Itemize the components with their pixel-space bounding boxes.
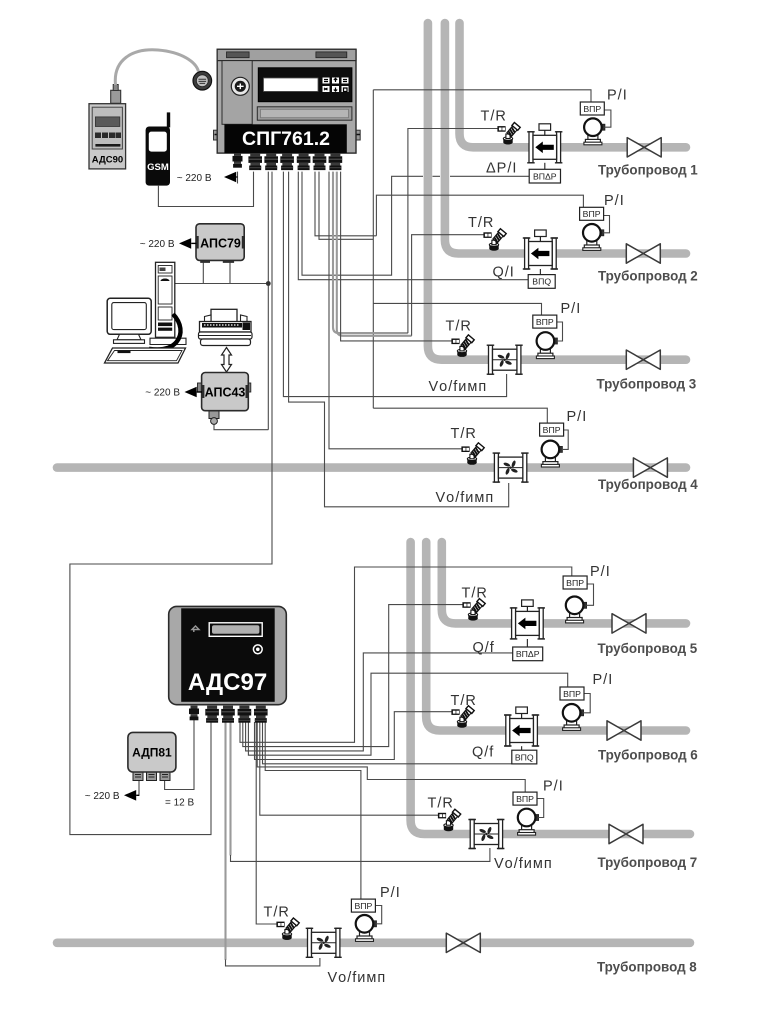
device АПС43 — [198, 373, 251, 425]
valve 2 — [626, 244, 660, 263]
pipe riser 2 (top-middle vertical) — [445, 23, 686, 254]
svg-text:~ 220 В: ~ 220 В — [140, 239, 175, 250]
svg-text:GSM: GSM — [147, 162, 169, 173]
ВПР box 6 — [560, 687, 584, 700]
wire T/R-1 — [333, 172, 408, 334]
mouse cable swoosh — [149, 314, 181, 349]
svg-text:T/R: T/R — [468, 215, 494, 231]
wire Q-5 — [246, 653, 513, 751]
computer tower — [150, 262, 186, 344]
ВПР-transmitter link 2 — [603, 216, 610, 233]
wire P/I-4 — [373, 408, 547, 423]
svg-text:T/R: T/R — [264, 905, 290, 921]
ВПР-transmitter link 5 — [586, 584, 593, 605]
transmitter 3 — [536, 332, 557, 358]
ВПQ box 2 — [528, 275, 555, 289]
device АПС79 — [196, 224, 244, 263]
svg-text:ΔP/I: ΔP/I — [486, 161, 517, 177]
svg-text:P/I: P/I — [590, 564, 611, 580]
svg-text:АПС79: АПС79 — [200, 237, 241, 251]
svg-text:Q/f: Q/f — [472, 745, 494, 761]
computer monitor — [107, 298, 151, 343]
svg-text:ВПQ: ВПQ — [532, 277, 551, 287]
turbine meter 4 — [493, 453, 529, 482]
svg-text:P/I: P/I — [380, 885, 401, 901]
svg-text:АДП81: АДП81 — [132, 746, 172, 760]
printer — [199, 309, 253, 345]
ВПР-transmitter link 8 — [375, 906, 381, 924]
ВПР box 1 — [580, 102, 604, 115]
WIRES top section — [70, 90, 591, 835]
svg-text:T/R: T/R — [451, 426, 477, 442]
svg-text:~ 220 В: ~ 220 В — [145, 388, 180, 399]
wire 220V stub СПГ — [237, 172, 239, 184]
svg-text:Трубопровод 6: Трубопровод 6 — [598, 748, 698, 763]
wire P/I-3 — [373, 303, 541, 315]
wire Q-6 — [263, 722, 512, 764]
svg-text:ВПР: ВПР — [536, 317, 554, 327]
220V arrow АПС79 — [140, 238, 197, 250]
wire АПС79 feet to bus — [175, 263, 268, 284]
transmitter 2 — [583, 224, 604, 250]
svg-text:T/R: T/R — [428, 796, 454, 812]
svg-text:Трубопровод 1: Трубопровод 1 — [598, 163, 698, 178]
WIRES bottom section — [139, 567, 572, 966]
ВПР-transmitter link 1 — [604, 110, 611, 127]
svg-text:ВПQ: ВПQ — [515, 752, 534, 762]
svg-text:P/I: P/I — [543, 779, 564, 795]
svg-text:T/R: T/R — [451, 693, 477, 709]
wire bus СПГ gland2 right line to АДС97 — [70, 172, 272, 835]
wire gland5 pair to P/I bus — [315, 172, 376, 240]
svg-text:ВПР: ВПР — [543, 425, 561, 435]
pipe riser 3 (top-left vertical) — [428, 23, 686, 360]
svg-text:АПС43: АПС43 — [205, 386, 246, 400]
flow meter 5 — [510, 600, 545, 639]
wire bus СПГ gland2 left line — [267, 172, 269, 430]
wire Q-2 — [298, 172, 528, 280]
T/R sensor 8 — [276, 918, 299, 940]
svg-text:ВПΔР: ВПΔР — [516, 649, 540, 659]
T/R sensor 6 — [451, 706, 474, 728]
ВПР-transmitter link 4 — [562, 430, 568, 449]
PIPES — [57, 23, 690, 943]
wire P/I-7 — [257, 722, 525, 792]
device АДС97 — [169, 606, 287, 704]
ВПР box 8 — [351, 899, 375, 912]
svg-text:P/I: P/I — [567, 409, 588, 425]
ВПР-transmitter link 3 — [556, 322, 563, 341]
wire P/I-2 — [376, 195, 583, 236]
T/R sensor 3 — [451, 335, 474, 357]
wire T/R-2 — [337, 172, 412, 336]
svg-text:= 12 В: = 12 В — [165, 798, 195, 809]
flow meter 2 — [523, 230, 558, 269]
svg-text:Vо/fимп: Vо/fимп — [429, 379, 488, 395]
svg-text:P/I: P/I — [604, 193, 625, 209]
device СПГ761.2 flow computer — [214, 49, 361, 153]
svg-text:ВПР: ВПР — [583, 104, 601, 114]
svg-text:P/I: P/I — [607, 88, 628, 104]
svg-text:Vо/fимп: Vо/fимп — [436, 490, 495, 506]
pipe riser 7 (bottom-left vertical) — [411, 542, 690, 834]
flow meter 6 — [504, 707, 539, 746]
svg-text:Q/I: Q/I — [493, 265, 515, 281]
svg-text:ВПΔР: ВПΔР — [533, 171, 557, 181]
svg-text:ВПР: ВПР — [566, 578, 584, 588]
wire GSM to gland1 — [158, 172, 253, 207]
turbine meter 7 — [468, 820, 504, 849]
wire T/R-4 — [329, 172, 462, 449]
round optical connector — [193, 71, 212, 90]
valve 4 — [633, 458, 667, 477]
wire АДП81 12V to АДС97 small gland — [165, 716, 194, 790]
valve 8 — [446, 933, 480, 952]
wire Vo-3 — [283, 172, 506, 397]
wire T/R-6 — [255, 712, 452, 760]
ВПР box 4 — [540, 423, 564, 436]
wire T/R-8 — [256, 722, 276, 924]
svg-text:ВПР: ВПР — [563, 689, 581, 699]
junction dot АПС79 bus — [266, 281, 271, 286]
pipe 8 (full width) — [57, 938, 690, 947]
T/R sensor 2 — [483, 229, 506, 251]
transmitter 5 — [566, 597, 587, 623]
T/R sensor 1 — [497, 123, 520, 145]
device GSM phone — [146, 112, 171, 185]
flow meter impulse stems — [522, 163, 545, 750]
pipe 4 (full width) — [57, 463, 686, 472]
svg-text:Трубопровод 7: Трубопровод 7 — [598, 855, 698, 870]
220V arrow СПГ — [177, 172, 238, 184]
wire P/I-1 — [373, 90, 591, 102]
svg-text:P/I: P/I — [593, 672, 614, 688]
T/R sensor 7 — [438, 809, 461, 831]
svg-text:Трубопровод 4: Трубопровод 4 — [598, 477, 698, 492]
svg-text:P/I: P/I — [561, 301, 582, 317]
valve 7 — [609, 824, 643, 843]
wire Vo-8 — [224, 722, 226, 960]
wire P/I-6 — [248, 673, 567, 755]
device АДС90 — [89, 85, 126, 169]
svg-text:Vо/fимп: Vо/fимп — [494, 856, 553, 872]
valve 3 — [626, 350, 660, 369]
ВПQ box 6 — [512, 750, 537, 764]
T/R sensor 5 — [462, 599, 485, 621]
svg-text:ВПР: ВПР — [354, 901, 372, 911]
svg-text:Трубопровод 3: Трубопровод 3 — [597, 376, 697, 391]
svg-text:T/R: T/R — [462, 586, 488, 602]
wire Vo-7 — [229, 722, 231, 855]
svg-text:Q/f: Q/f — [473, 640, 495, 656]
svg-text:АДС90: АДС90 — [92, 155, 123, 166]
ВПР-transmitter link 7 — [537, 799, 543, 818]
computer keyboard — [105, 348, 186, 363]
svg-text:Трубопровод 5: Трубопровод 5 — [598, 641, 698, 656]
wire АПС43 to bus — [214, 425, 268, 430]
valve 5 — [612, 614, 646, 633]
flow meter 1 — [527, 124, 562, 163]
transmitter 6 — [563, 704, 584, 730]
transmitter 4 — [541, 441, 562, 467]
svg-text:ВПР: ВПР — [583, 209, 601, 219]
pipe riser 1 (top-right vertical) — [460, 23, 687, 147]
svg-text:T/R: T/R — [481, 109, 507, 125]
ВПР box 3 — [533, 315, 557, 328]
svg-text:Трубопровод 2: Трубопровод 2 — [598, 269, 698, 284]
turbine meter 8 — [306, 928, 342, 957]
wire T/R-3 — [341, 172, 452, 341]
svg-text:Трубопровод 8: Трубопровод 8 — [597, 960, 697, 975]
wire АДП81 220V stub — [138, 781, 140, 797]
ВПΔР box 5 — [513, 647, 543, 661]
ВПР-transmitter link 6 — [583, 694, 590, 713]
optical cable АДС90 to connector — [115, 50, 198, 85]
pipe riser 5 (bottom-right vertical) — [442, 542, 686, 623]
turbine meter 3 — [487, 345, 523, 374]
wire T/R-7 — [260, 722, 438, 815]
valve 6 — [607, 721, 641, 740]
wire P/I bus vertical — [372, 90, 374, 408]
wire Vo-4 — [289, 172, 509, 507]
СПГ761.2 cable glands — [233, 153, 243, 168]
svg-text:Vо/fимп: Vо/fимп — [328, 970, 387, 986]
ВПР box 5 — [563, 576, 587, 589]
wire T/R-5 — [243, 605, 463, 747]
wire P/I-5 — [240, 567, 572, 742]
pipe riser 6 (bottom-middle vertical) — [426, 542, 686, 731]
ВПР box 2 — [580, 207, 604, 220]
svg-text:~ 220 В: ~ 220 В — [177, 173, 212, 184]
220V arrow АПС43 — [145, 387, 202, 399]
wire ΔP-1 (with pipe gaps) — [302, 172, 529, 276]
device АДП81 — [128, 732, 176, 780]
wire P/I-8 — [265, 722, 361, 899]
transmitter 1 — [584, 118, 605, 144]
transmitter 7 — [518, 809, 539, 835]
svg-text:СПГ761.2: СПГ761.2 — [242, 128, 330, 150]
T/R sensor 4 — [461, 443, 484, 465]
svg-text:ВПР: ВПР — [516, 794, 534, 804]
ВПР box 7 — [513, 792, 537, 805]
220V arrow АДП81 — [85, 790, 139, 802]
double arrow printer-АПС43 — [222, 348, 232, 373]
svg-text:T/R: T/R — [446, 319, 472, 335]
ВПΔР box 1 — [529, 169, 560, 183]
valve 1 — [627, 138, 661, 157]
transmitter 8 — [356, 915, 377, 941]
АДС97 cable glands — [189, 706, 199, 721]
svg-text:АДС97: АДС97 — [188, 669, 267, 696]
svg-text:~ 220 В: ~ 220 В — [85, 791, 120, 802]
